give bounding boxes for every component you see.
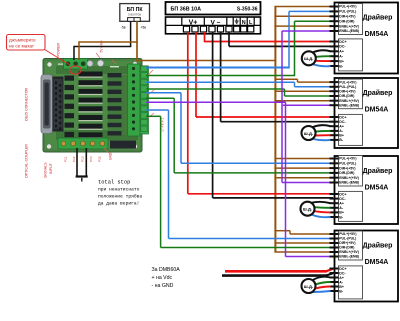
svg-text:DIR-(DIR): DIR-(DIR) [339, 171, 354, 175]
svg-text:SIGNALS: SIGNALS [44, 162, 48, 178]
svg-text:P13: P13 [81, 156, 85, 162]
wire green DIR to driver3 [146, 97, 174, 99]
stepper motor M2 (ш.д.) wires [313, 125, 331, 140]
wire blue PUL to driver3 [146, 92, 181, 94]
wire V+ red to driver1 DC+ [204, 32, 206, 42]
svg-text:DIR+(+5V): DIR+(+5V) [339, 15, 355, 19]
svg-text:ENBL-(ENB): ENBL-(ENB) [339, 103, 359, 107]
top power terminal block on board [64, 59, 88, 70]
svg-text:POWER: POWER [57, 43, 61, 57]
svg-text:PUL+(+5V): PUL+(+5V) [339, 232, 356, 236]
svg-text:P11: P11 [64, 156, 68, 162]
svg-text:total stop: total stop [98, 180, 130, 186]
svg-text:OPTICAL-COUPLER: OPTICAL-COUPLER [25, 144, 29, 178]
svg-text:PUL+(+5V): PUL+(+5V) [339, 5, 356, 9]
svg-text:Драйвер: Драйвер [363, 242, 393, 250]
svg-text:Драйвер: Драйвер [363, 14, 393, 22]
svg-text:ENBL+(+5V): ENBL+(+5V) [339, 250, 359, 254]
svg-text:DIR+(+5V): DIR+(+5V) [339, 241, 355, 245]
total stop switch wires [76, 148, 78, 177]
wire V+ red to driver2 DC+ [195, 32, 197, 117]
dark connector at board bottom right [110, 141, 136, 149]
wire brown vertical rail x=275.4 [274, 7, 276, 253]
wire blue PUL to driver2 [146, 81, 295, 83]
svg-text:DC+: DC+ [339, 40, 346, 44]
svg-text:B+: B+ [339, 59, 344, 63]
svg-text:ш.д.: ш.д. [303, 207, 312, 212]
driver U3 pin ticks [330, 158, 339, 219]
svg-text:PUL-(PUL): PUL-(PUL) [339, 162, 356, 166]
wire brown branches to driver +5V pins [274, 6, 333, 8]
svg-text:DM54A: DM54A [365, 185, 389, 192]
svg-text:ENBL-(ENB): ENBL-(ENB) [339, 181, 359, 185]
stepper motor M4 (ш.д.) wires [313, 277, 331, 292]
svg-text:PUL-(PUL): PUL-(PUL) [339, 85, 356, 89]
svg-text:да дава верига!: да дава верига! [98, 201, 139, 207]
svg-text:ENBL-(ENB): ENBL-(ENB) [339, 29, 359, 33]
svg-text:+ на Vdc: + на Vdc [152, 275, 173, 281]
PC power supply box (БП ПК) [120, 4, 150, 30]
svg-text:- на GND: - на GND [152, 283, 174, 289]
svg-text:не се махат: не се махат [9, 44, 35, 49]
svg-text:DC+: DC+ [339, 267, 346, 271]
svg-text:DIR-(DIR): DIR-(DIR) [339, 19, 354, 23]
svg-text:P15: P15 [98, 156, 102, 162]
svg-text:ENBL+(+5V): ENBL+(+5V) [339, 99, 359, 103]
stepper motor M2 circle [302, 126, 316, 140]
wire brown jog to driver4 PUL+ [274, 230, 290, 232]
svg-text:PUL+(+5V): PUL+(+5V) [339, 157, 356, 161]
svg-text:Драйвер: Драйвер [363, 167, 393, 175]
svg-text:N: N [242, 20, 246, 26]
DB25 connector [41, 75, 64, 134]
svg-text:DIR+(+5V): DIR+(+5V) [339, 89, 355, 93]
svg-text:джъмперите: джъмперите [9, 37, 36, 42]
driver U4 pin ticks [330, 233, 339, 292]
svg-text:DIR-(DIR): DIR-(DIR) [339, 94, 354, 98]
svg-text:V −: V − [210, 19, 220, 26]
electrolytic capacitors on board top [87, 60, 104, 67]
svg-text:+5в: +5в [140, 26, 146, 30]
stepper motor M1 (ш.д.) wires [313, 50, 331, 66]
driver U1 pin ticks [330, 6, 339, 68]
svg-text:V+: V+ [189, 19, 198, 26]
wire V- black to driver1 DC- [228, 32, 230, 46]
note: total stop text [98, 180, 142, 207]
svg-text:ENBL+(+5V): ENBL+(+5V) [339, 176, 359, 180]
svg-text:DB25 CONNECTOR: DB25 CONNECTOR [25, 88, 29, 121]
red ellipse around power terminal [70, 66, 82, 74]
svg-text:PUL-(PUL): PUL-(PUL) [339, 237, 356, 241]
svg-text:ш.д.: ш.д. [304, 131, 313, 136]
svg-text:За DMB60A: За DMB60A [152, 267, 181, 273]
svg-text:P12: P12 [72, 156, 76, 162]
svg-text:DM54A: DM54A [365, 107, 389, 114]
wire V- black to driver3 DC- [212, 32, 214, 198]
wire V- black to driver2 DC- [220, 32, 222, 122]
wire black power stub to driver4 DC- [222, 274, 327, 277]
wire -5v black: PC PSU to board power terminal [130, 21, 132, 46]
svg-text:A+: A+ [339, 125, 344, 129]
svg-text:DM54A: DM54A [365, 31, 389, 38]
svg-text:GND: GND [109, 152, 113, 160]
svg-text:A+: A+ [339, 202, 344, 206]
red annotation: jumpers callout box [7, 35, 71, 66]
driver U3 DM54A box [335, 156, 399, 225]
wire brown jog to driver2 PUL+ [274, 78, 297, 80]
breakout board PCB [43, 59, 142, 153]
wire +5v brown rail: to drivers column [137, 60, 276, 62]
driver U2 DM54A box [335, 78, 399, 148]
svg-text:DC-: DC- [339, 45, 346, 49]
svg-text:DC-: DC- [339, 197, 346, 201]
svg-text:ш.д.: ш.д. [304, 56, 313, 61]
svg-text:PUL-(PUL): PUL-(PUL) [339, 10, 356, 14]
svg-text:Драйвер: Драйвер [363, 89, 393, 97]
svg-text:DC-: DC- [339, 120, 346, 124]
driver U4 DM54A box [335, 231, 399, 302]
svg-text:S-350-36: S-350-36 [237, 6, 258, 12]
wire red power stub to driver4 DC+ [225, 270, 327, 273]
svg-text:DM54A: DM54A [365, 259, 389, 266]
svg-text:DIR-(DIR): DIR-(DIR) [339, 246, 354, 250]
stepper motor M3 (ш.д.) wires [312, 202, 331, 217]
svg-text:БП 36В 10А: БП 36В 10А [171, 7, 202, 13]
wire +5v brown: PC PSU to board power terminal [136, 21, 138, 61]
svg-text:ENBL+(+5V): ENBL+(+5V) [339, 24, 359, 28]
svg-text:B+: B+ [339, 211, 344, 215]
svg-text:B+: B+ [339, 134, 344, 138]
svg-text:-5в: -5в [121, 26, 126, 30]
svg-text:ш.д.: ш.д. [304, 284, 313, 289]
svg-text:DC-: DC- [339, 271, 346, 275]
stepper motor M1 circle [302, 51, 316, 65]
svg-text:DC+: DC+ [339, 192, 346, 196]
svg-text:5-ВОЛТОВ: 5-ВОЛТОВ [128, 13, 141, 17]
svg-text:A+: A+ [339, 50, 344, 54]
total stop switch actuator [81, 178, 83, 182]
svg-text:B+: B+ [339, 285, 344, 289]
svg-text:INPUT: INPUT [49, 162, 53, 174]
wire green DIR to driver1 [146, 75, 295, 77]
wire purple ENABLE common rail [146, 101, 286, 103]
svg-text:ENBL-(ENB): ENBL-(ENB) [339, 255, 359, 259]
svg-text:положение трябва: положение трябва [98, 194, 142, 200]
wire blue PUL to driver4 [146, 109, 169, 111]
stepper motor M3 circle [301, 202, 315, 216]
driver U1 DM54A box [335, 3, 399, 74]
wire green DIR to driver2 [146, 88, 285, 90]
36V power supply box (БП 36В 10А S-350-36) [166, 2, 261, 15]
stepper motor M4 circle [302, 279, 316, 293]
optocoupler IC rows [58, 64, 131, 145]
svg-text:PUL+(+5V): PUL+(+5V) [339, 80, 356, 84]
bottom signal terminal block [58, 138, 108, 149]
note: За DMB60A text [152, 267, 181, 289]
svg-text:при ненатиснато: при ненатиснато [98, 188, 140, 193]
driver U2 pin ticks [330, 81, 339, 141]
svg-text:A+: A+ [339, 276, 344, 280]
right edge signal terminal block [128, 64, 149, 136]
wire V+ red to driver3 DC+ [187, 32, 189, 194]
red leader lines near connector [148, 70, 153, 75]
wire blue PUL to driver1 [146, 67, 289, 69]
svg-text:БП ПК: БП ПК [127, 7, 144, 13]
svg-text:DC+: DC+ [339, 115, 346, 119]
wire green DIR to driver4 [146, 115, 161, 117]
svg-text:P14: P14 [89, 156, 93, 162]
svg-text:DIR+(+5V): DIR+(+5V) [339, 166, 355, 170]
36V PSU terminal strip [166, 17, 261, 34]
